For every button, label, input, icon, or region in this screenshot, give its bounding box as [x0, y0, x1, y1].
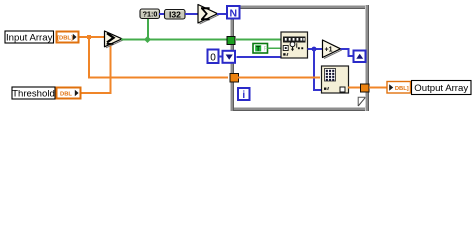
right shift register (up arrow)	[354, 51, 366, 63]
wire: shift register to Search node (blue)	[237, 56, 283, 58]
True constant	[253, 44, 268, 54]
for-loop frame	[230, 5, 369, 111]
svg-text:DBL: DBL	[60, 91, 72, 97]
wire: Input Array branch to loop tunnel (orange horizontal)	[88, 77, 228, 79]
wire: tunnel to Output Array	[369, 87, 387, 89]
Output Array DBL indicator	[387, 82, 411, 94]
junction dot on index wire	[312, 47, 317, 52]
wire: 0 to left shift register	[218, 56, 224, 58]
wire: Search index output (blue)	[308, 48, 323, 50]
wire: green vertical up to ?1:0	[147, 18, 149, 40]
wire: greater output to loop (green)	[121, 39, 229, 41]
junction diamond on green wire	[144, 36, 151, 43]
svg-text:[DBL]: [DBL]	[57, 35, 73, 41]
Add Array Elements node (sigma)	[198, 5, 219, 25]
Threshold label	[12, 87, 55, 100]
svg-text:Threshold: Threshold	[12, 89, 55, 100]
i iteration terminal	[238, 88, 250, 101]
svg-text:Output Array: Output Array	[414, 83, 468, 94]
svg-text:N: N	[230, 8, 238, 20]
left shift register (down arrow)	[223, 51, 236, 63]
wire: Threshold to Greater node	[81, 92, 111, 94]
folded corner glyph (loop bottom-right)	[358, 97, 366, 106]
svg-text:+1: +1	[325, 47, 333, 54]
Input Array label	[5, 31, 54, 44]
wire: Input Array branch down (orange vertical)	[88, 37, 90, 77]
svg-text:I32: I32	[169, 9, 181, 19]
wire: Index Array output to tunnel (orange)	[348, 87, 364, 89]
0 constant	[208, 50, 219, 64]
svg-text:0: 0	[210, 53, 216, 64]
wire: +1 to right shift register	[341, 48, 350, 50]
N count terminal	[227, 6, 240, 20]
orange tunnel on left border	[230, 74, 239, 83]
Input Array DBL terminal	[57, 32, 79, 43]
svg-text:T: T	[256, 46, 261, 53]
svg-text:?1:0: ?1:0	[143, 9, 158, 18]
wire: orange inside loop to Index Array	[237, 77, 320, 79]
svg-text:Input Array: Input Array	[6, 33, 53, 44]
To-I32 conversion node	[165, 9, 186, 19]
Threshold DBL terminal	[57, 88, 81, 99]
wire: True constant to Search node (green)	[268, 47, 282, 49]
junction on Input Array wire	[87, 35, 91, 39]
wire: I32 to sum (blue)	[185, 13, 198, 15]
svg-text:i: i	[242, 90, 245, 101]
wire: Input Array to Greater node (orange)	[79, 36, 105, 38]
Increment +1 node	[323, 40, 342, 59]
Boolean-to-(0,1) conversion node ?1:0	[140, 9, 160, 19]
Greater-or-equal comparison node	[105, 31, 124, 48]
wire: green inside loop to Search node	[236, 39, 282, 41]
Search 1D Array node	[281, 32, 308, 58]
green tunnel on left border	[227, 37, 235, 45]
Index Array node	[322, 66, 349, 93]
orange tunnel on right border	[361, 84, 370, 92]
svg-text:F: F	[264, 46, 268, 53]
wire: sum to N (blue)	[217, 13, 227, 15]
wire: index down to Index Array	[313, 49, 315, 91]
svg-text:DBL]: DBL]	[395, 86, 409, 92]
Output Array label	[412, 81, 472, 95]
wire: ?1:0 to I32 (blue)	[159, 13, 165, 15]
